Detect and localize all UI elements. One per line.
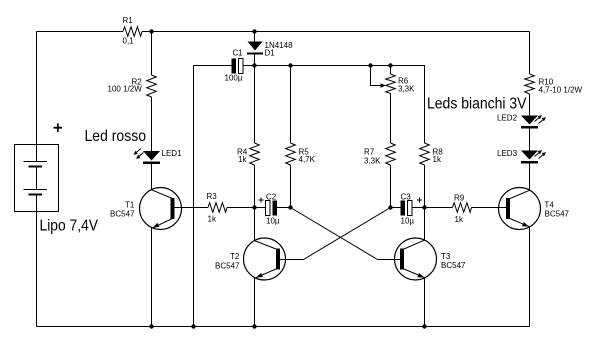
- wire mid rail to C1: [194, 65, 232, 67]
- svg-text:R3: R3: [207, 192, 218, 201]
- svg-text:10µ: 10µ: [266, 217, 280, 226]
- trimmer R6 wiper arrow: [381, 83, 386, 88]
- node junction top D1: [252, 29, 256, 33]
- node junction R5 top: [288, 63, 292, 67]
- wire T2 emitter to bottom: [254, 278, 256, 327]
- wire R7 bottom: [390, 165, 392, 208]
- wire LED3 to T4 collector: [529, 164, 531, 191]
- wire R6 to R7: [390, 94, 392, 144]
- wire T2 collector: [254, 208, 256, 241]
- node junction R6 top: [388, 63, 392, 67]
- svg-text:BC547: BC547: [215, 262, 240, 271]
- capacitor C1 100u: [225, 49, 244, 83]
- svg-text:R9: R9: [454, 194, 465, 203]
- svg-text:C2: C2: [266, 193, 277, 202]
- svg-text:LED3: LED3: [497, 149, 518, 158]
- wire C1 to D1 node: [243, 65, 255, 67]
- resistor R3: [207, 192, 228, 224]
- wire left rail below battery: [36, 195, 38, 327]
- svg-text:Led rosso: Led rosso: [85, 128, 147, 145]
- node junction C2 left: [252, 205, 256, 209]
- trimmer R6 wiper wire: [371, 66, 382, 86]
- LED LED2: [497, 114, 546, 129]
- svg-text:3,3K: 3,3K: [364, 157, 381, 166]
- node junction C1 rail bottom: [191, 324, 195, 328]
- svg-text:C1: C1: [233, 49, 244, 58]
- node junction C2 right: [288, 205, 292, 209]
- wire top rail right: [142, 31, 530, 33]
- battery B1 Lipo 7,4V: [15, 123, 99, 234]
- resistor R6 3,3K: [386, 74, 415, 94]
- svg-text:LED2: LED2: [497, 114, 518, 123]
- svg-text:R7: R7: [364, 148, 375, 157]
- wire C1 left rail: [193, 66, 195, 327]
- svg-text:BC547: BC547: [441, 261, 466, 270]
- wire R2 to LED1: [151, 97, 153, 151]
- wire T3 collector: [424, 208, 426, 241]
- svg-text:Lipo 7,4V: Lipo 7,4V: [40, 218, 99, 235]
- svg-text:0,1: 0,1: [123, 37, 135, 46]
- node junction R6 wiper top: [368, 63, 372, 67]
- svg-text:C3: C3: [401, 193, 412, 202]
- wire top rail left: [37, 31, 124, 33]
- wire R8 bottom: [424, 165, 426, 208]
- node junction C3 right: [422, 205, 426, 209]
- svg-text:T3: T3: [441, 252, 451, 261]
- transistor T4 BC547: [499, 188, 570, 230]
- node junction bottom T2: [252, 324, 256, 328]
- svg-text:3,3K: 3,3K: [398, 85, 415, 94]
- svg-text:100 1/2W: 100 1/2W: [108, 85, 143, 94]
- svg-text:Leds bianchi 3V: Leds bianchi 3V: [427, 96, 527, 113]
- svg-text:1k: 1k: [433, 155, 442, 164]
- wire R9 to T4 base: [472, 207, 507, 209]
- wire bottom rail: [37, 326, 530, 328]
- resistor R10: [525, 74, 583, 95]
- resistor R5: [286, 143, 316, 165]
- svg-text:T2: T2: [230, 252, 240, 261]
- wire left rail down to battery: [36, 32, 38, 162]
- svg-text:T4: T4: [545, 201, 555, 210]
- svg-text:10µ: 10µ: [401, 217, 415, 226]
- svg-text:4,7K: 4,7K: [299, 155, 316, 164]
- wire R10 to LED2: [529, 94, 531, 116]
- wire LED2 to LED3: [529, 129, 531, 151]
- node junction top R2: [149, 29, 153, 33]
- node junction C3 left: [388, 205, 392, 209]
- resistor R1: [123, 16, 143, 46]
- transistor T1 BC547: [110, 188, 182, 230]
- svg-text:T1: T1: [125, 201, 135, 210]
- capacitor C2 10u: [255, 193, 291, 226]
- svg-text:R1: R1: [123, 16, 134, 25]
- node junction C1-D1: [252, 63, 256, 67]
- svg-text:4,7-10 1/2W: 4,7-10 1/2W: [539, 86, 583, 95]
- svg-text:1k: 1k: [238, 155, 247, 164]
- wire C3 to R9: [425, 207, 453, 209]
- wire D1 to mid rail: [254, 55, 256, 66]
- resistor R8: [420, 143, 444, 165]
- wire T1 emitter to bottom rail: [151, 228, 153, 327]
- wire T4 emitter to bottom: [529, 227, 531, 327]
- wire D1 drop: [254, 32, 256, 42]
- svg-text:BC547: BC547: [545, 210, 570, 219]
- wire from top to R2: [151, 32, 153, 76]
- diode D1 1N4148: [247, 41, 293, 58]
- svg-text:100µ: 100µ: [225, 74, 243, 83]
- wire cross C2 to T3 base: [291, 208, 401, 260]
- svg-text:1k: 1k: [208, 215, 217, 224]
- resistor R2: [108, 75, 157, 97]
- wire R3 to C2 node: [227, 207, 255, 209]
- LED LED1: [134, 149, 183, 165]
- svg-text:BC547: BC547: [110, 210, 135, 219]
- wire R5 top: [290, 66, 292, 144]
- wire R5 bottom: [290, 165, 292, 208]
- wire R4 top: [254, 66, 256, 144]
- capacitor C3 10u: [391, 193, 425, 226]
- wire R8 top corner: [424, 66, 427, 144]
- svg-text:LED1: LED1: [162, 149, 183, 158]
- node junction bottom T1: [149, 324, 153, 328]
- wire LED1 to T1: [151, 164, 153, 190]
- wire T3 emitter to bottom: [424, 278, 426, 327]
- resistor R9: [453, 194, 472, 225]
- wire mid rail right: [255, 65, 426, 67]
- LED LED3: [497, 149, 546, 164]
- svg-text:1k: 1k: [455, 215, 464, 224]
- resistor R4: [237, 143, 259, 165]
- node junction bottom T3: [422, 324, 426, 328]
- transistor T3 BC547: [395, 238, 467, 280]
- resistor R7: [364, 143, 395, 166]
- wire T1 base to R3: [175, 207, 209, 209]
- svg-text:D1: D1: [265, 49, 276, 58]
- wire right rail to R10: [529, 32, 531, 75]
- wire R4 bottom: [254, 165, 256, 208]
- wire R6 top: [390, 66, 392, 75]
- transistor T2 BC547: [215, 238, 286, 280]
- wire cross C3 to T2 base: [280, 208, 391, 260]
